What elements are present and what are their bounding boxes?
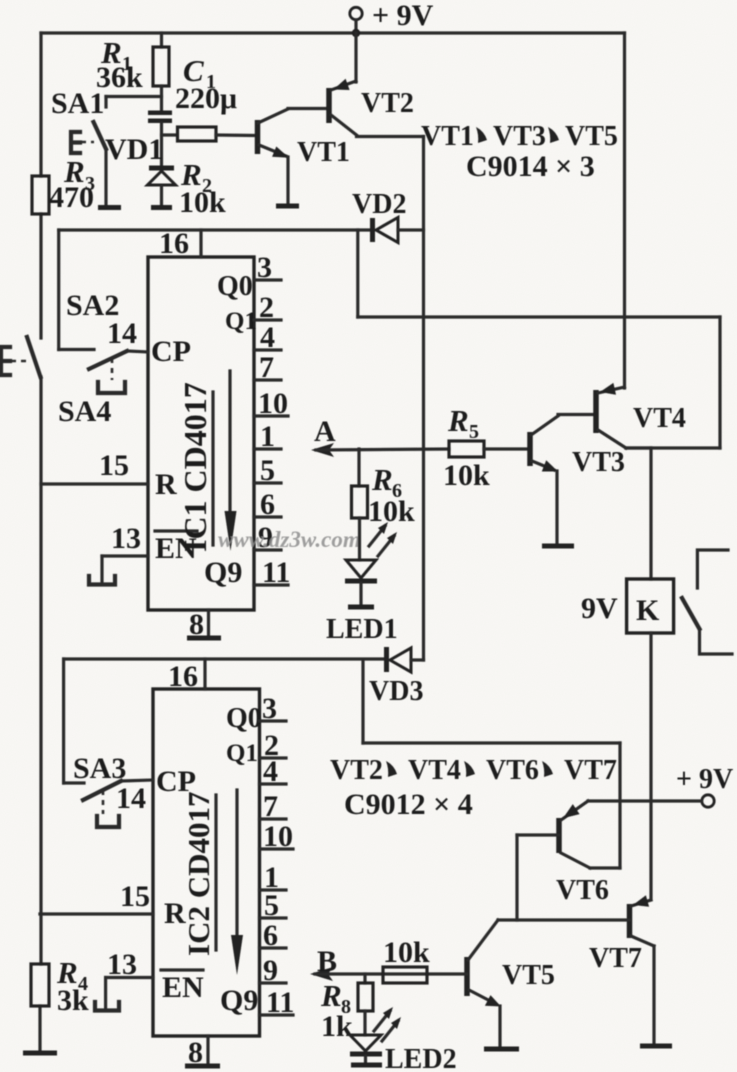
resistor R6	[352, 449, 416, 560]
resistor R3	[32, 154, 95, 214]
svg-text:VT1: VT1	[421, 121, 474, 152]
wire IC2 pin16 feed	[64, 659, 84, 783]
IC2 pin13 pulse input	[95, 948, 153, 1011]
svg-text:3k: 3k	[57, 984, 89, 1017]
wire top +9V rail	[41, 31, 625, 34]
svg-text:VT1: VT1	[297, 137, 350, 168]
diode VD3	[64, 647, 424, 707]
IC2 right pins	[260, 692, 295, 1019]
svg-text:VT4: VT4	[408, 755, 461, 786]
svg-text:5: 5	[469, 421, 479, 443]
IC1 pin8 ground	[187, 608, 221, 641]
svg-text:R: R	[447, 403, 469, 438]
IC2 pin15 wire	[40, 880, 153, 914]
svg-text:R: R	[320, 978, 342, 1013]
capacitor C1	[148, 53, 237, 166]
node B arrow	[310, 945, 467, 981]
svg-text:VT3: VT3	[493, 121, 546, 152]
node junction at top rail	[352, 29, 360, 37]
svg-text:Q0: Q0	[226, 703, 262, 734]
svg-text:VT5: VT5	[502, 960, 555, 991]
svg-text:VD1: VD1	[105, 133, 163, 166]
svg-text:LED1: LED1	[326, 614, 398, 645]
svg-text:14: 14	[107, 317, 137, 350]
svg-text:B: B	[317, 945, 337, 978]
IC1 CD4017	[148, 227, 257, 610]
svg-text:VT4: VT4	[633, 403, 686, 434]
relay K coil	[581, 448, 674, 899]
+9V supply terminal bottom	[588, 764, 733, 807]
svg-text:SA4: SA4	[58, 395, 111, 428]
svg-text:VT6: VT6	[486, 755, 539, 786]
svg-text:www.dz3w.com: www.dz3w.com	[218, 527, 361, 552]
IC1 right pins	[254, 251, 290, 589]
ground bottom-left	[23, 1051, 57, 1056]
svg-text:LED2: LED2	[385, 1044, 457, 1072]
resistor R2	[162, 127, 257, 219]
resistor R5	[443, 403, 527, 492]
wire VD3 node to VT6 collector	[363, 660, 620, 868]
svg-text:R: R	[155, 468, 177, 501]
svg-text:Q9: Q9	[220, 984, 258, 1017]
svg-text:16: 16	[168, 660, 198, 693]
svg-text:10k: 10k	[179, 186, 226, 219]
svg-text:13: 13	[111, 522, 141, 555]
transistor VT3	[530, 415, 625, 547]
svg-text:14: 14	[116, 782, 146, 815]
switch SA1	[51, 87, 162, 208]
switch SA2	[59, 230, 148, 393]
LED2	[350, 1007, 457, 1072]
IC2 pin8 ground	[185, 1036, 220, 1069]
switch SA4 (on left bus)	[1, 337, 111, 428]
wire mid rail y317	[358, 230, 720, 448]
svg-text:1k: 1k	[321, 1010, 353, 1043]
svg-text:EN: EN	[162, 971, 204, 1004]
resistor R1	[96, 33, 169, 111]
svg-text:+ 9V: + 9V	[676, 764, 733, 795]
transistor VT2	[329, 33, 424, 137]
svg-text:220μ: 220μ	[175, 82, 237, 115]
switch SA3	[73, 752, 153, 827]
svg-text:SA1: SA1	[51, 87, 104, 120]
transistor VT1	[258, 109, 350, 207]
resistor R8	[320, 974, 373, 1043]
svg-text:R: R	[371, 462, 393, 497]
wire pin16 feed rail y230	[59, 228, 372, 231]
+9V supply terminal top	[350, 0, 434, 33]
IC1 pin13 pulse input	[89, 522, 148, 585]
label VT2 VT4 VT6 VT7 group	[330, 755, 617, 821]
svg-text:IC2 CD4017: IC2 CD4017	[181, 792, 216, 956]
svg-text:VT5: VT5	[565, 121, 618, 152]
IC1 pin15 wire	[41, 449, 148, 484]
svg-text:13: 13	[107, 948, 137, 981]
svg-text:C9014 × 3: C9014 × 3	[466, 150, 595, 183]
svg-text:VD3: VD3	[369, 676, 423, 707]
svg-text:VT6: VT6	[556, 875, 609, 906]
resistor 10k (VT5 base)	[383, 936, 430, 983]
svg-text:470: 470	[49, 181, 94, 214]
svg-text:Q1: Q1	[225, 308, 257, 335]
svg-text:VD2: VD2	[352, 189, 406, 220]
wire VT2 collector drop to VD3	[422, 137, 425, 661]
transistor VT6	[517, 801, 620, 920]
diode VD1	[105, 133, 176, 208]
svg-text:10k: 10k	[368, 495, 415, 528]
svg-text:SA3: SA3	[73, 752, 126, 785]
node A arrow	[311, 415, 449, 457]
resistor R4	[31, 955, 89, 1017]
svg-text:Q9: Q9	[204, 556, 242, 589]
svg-text:C9012 × 4: C9012 × 4	[344, 788, 473, 821]
svg-text:10k: 10k	[383, 936, 430, 969]
svg-text:VT7: VT7	[589, 943, 642, 974]
svg-text:10k: 10k	[443, 459, 490, 492]
svg-text:VT2: VT2	[330, 755, 383, 786]
IC2 CD4017	[153, 659, 262, 1036]
label VT1 VT3 VT5 group	[421, 121, 618, 183]
transistor VT4	[596, 317, 686, 448]
svg-text:15: 15	[120, 880, 150, 913]
wire +9V drop to VT4 emitter	[623, 33, 626, 317]
svg-text:IC1 CD4017: IC1 CD4017	[177, 382, 213, 552]
svg-text:9V: 9V	[581, 592, 618, 625]
svg-text:VT7: VT7	[564, 755, 617, 786]
svg-text:8: 8	[188, 1036, 203, 1069]
svg-text:8: 8	[189, 608, 204, 641]
diode VD2	[352, 189, 424, 243]
svg-text:Q1: Q1	[226, 740, 258, 767]
svg-text:Q0: Q0	[217, 271, 253, 302]
svg-text:VT2: VT2	[361, 88, 414, 119]
transistor VT5	[467, 920, 555, 1049]
svg-text:+ 9V: + 9V	[372, 0, 434, 32]
svg-text:A: A	[314, 415, 336, 448]
LED1	[326, 522, 398, 645]
transistor VT7	[498, 895, 672, 1046]
svg-text:CP: CP	[151, 335, 191, 368]
svg-text:VT3: VT3	[572, 447, 625, 478]
svg-text:15: 15	[99, 449, 129, 482]
svg-text:16: 16	[159, 227, 189, 260]
svg-text:K: K	[636, 594, 660, 627]
wire left bus vertical	[40, 33, 41, 1051]
relay contact	[682, 550, 732, 654]
